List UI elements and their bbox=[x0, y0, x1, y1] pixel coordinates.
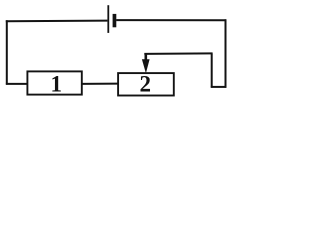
wire top-left horizontal (left corner to battery long plate) bbox=[6, 20, 108, 23]
wire right outer vertical bbox=[225, 19, 227, 87]
wire inner right vertical (u-turn up to wiper level) bbox=[211, 54, 213, 88]
wire wiper horizontal bbox=[144, 52, 212, 55]
wiper arrow shaft bbox=[145, 54, 148, 62]
wire bottom-right u-turn horizontal bbox=[211, 86, 227, 88]
battery long thin plate bbox=[107, 5, 109, 33]
resistor box 1 bbox=[27, 71, 81, 94]
wire left vertical bbox=[6, 20, 8, 84]
battery short thick plate bbox=[113, 14, 117, 27]
wire bottom-left horizontal into box 1 bbox=[6, 83, 28, 85]
wire between box 1 and box 2 bbox=[82, 83, 119, 85]
rheostat box 2 bbox=[118, 73, 174, 95]
wire top-right horizontal (battery thick plate to right corner) bbox=[116, 19, 226, 21]
svg-text:1: 1 bbox=[50, 72, 62, 97]
svg-text:2: 2 bbox=[139, 71, 151, 96]
wiper arrowhead bbox=[142, 59, 150, 73]
